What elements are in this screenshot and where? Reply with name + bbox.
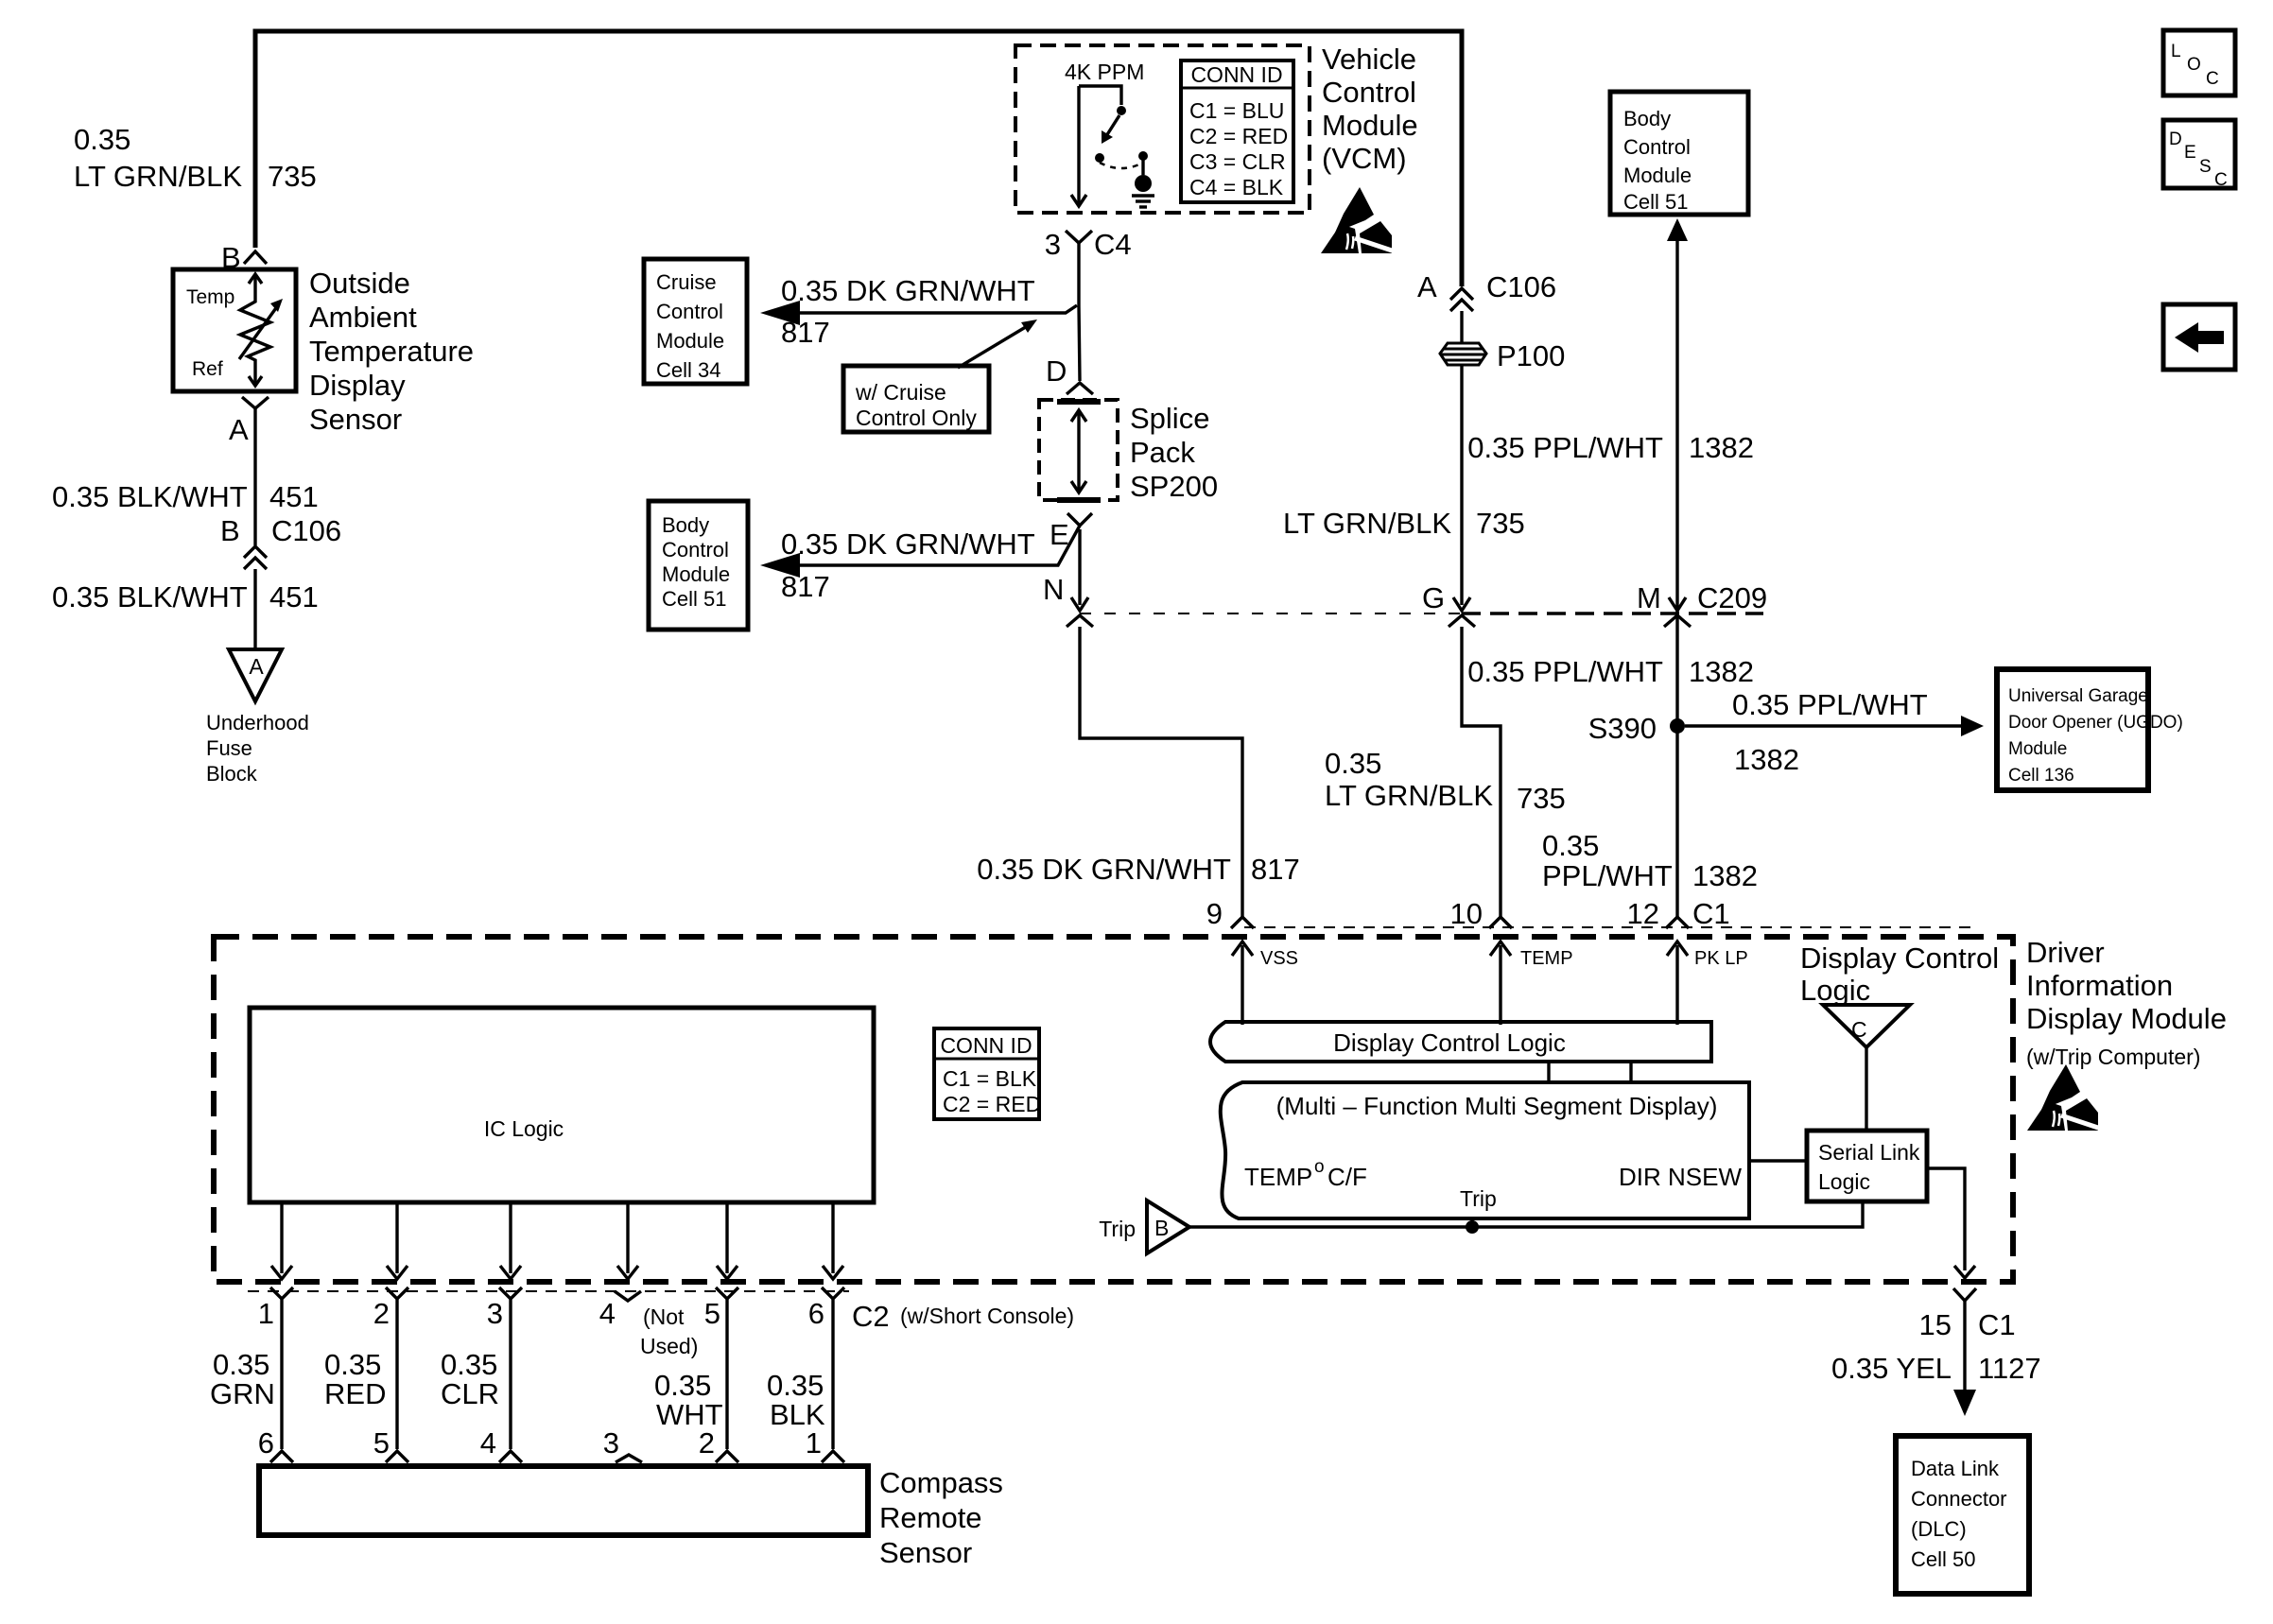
- svg-text:Fuse: Fuse: [206, 736, 252, 760]
- pin G at connector C209: [1422, 581, 1475, 627]
- svg-text:Logic: Logic: [1818, 1169, 1870, 1194]
- svg-text:15: 15: [1919, 1308, 1952, 1341]
- label: 0.35 RED: [324, 1348, 386, 1410]
- label: 0.35 DK GRN/WHT 817 (to cruise): [781, 274, 1035, 349]
- svg-text:LT GRN/BLK: LT GRN/BLK: [1325, 779, 1493, 812]
- svg-text:Trip: Trip: [1099, 1217, 1136, 1241]
- callout arrow to branch point: [958, 320, 1037, 368]
- connector chevron at sensor pin A: [242, 397, 269, 408]
- table: CONN ID for VCM connectors: [1181, 60, 1293, 202]
- svg-text:Temperature: Temperature: [309, 335, 474, 368]
- svg-text:1382: 1382: [1734, 743, 1799, 776]
- svg-text:Module: Module: [662, 562, 730, 586]
- node C: display control logic output triangle: [1823, 1005, 1910, 1047]
- svg-text:817: 817: [1251, 853, 1300, 886]
- label: Vehicle Control Module (VCM): [1322, 43, 1418, 175]
- pin M / C209: [1637, 581, 1767, 627]
- wire: compass sensor wire 6-1 BLK: [831, 1299, 834, 1449]
- svg-text:Used): Used): [640, 1334, 698, 1358]
- wire: compass sensor wire 3-4 CLR: [509, 1299, 512, 1449]
- svg-text:GRN: GRN: [210, 1377, 275, 1410]
- component: Body Control Module Cell 51 box (top right): [1610, 92, 1748, 215]
- svg-text:C4 = BLK: C4 = BLK: [1189, 175, 1284, 199]
- svg-text:IC Logic: IC Logic: [484, 1116, 564, 1141]
- label: 0.35 DK GRN/WHT 817 (at pin 9): [977, 853, 1299, 886]
- svg-text:E: E: [1050, 518, 1069, 551]
- svg-text:0.35: 0.35: [74, 123, 130, 156]
- svg-text:(VCM): (VCM): [1322, 142, 1407, 175]
- svg-text:1382: 1382: [1689, 431, 1754, 464]
- wire: PPL/WHT 1382 branch to UGDO module: [1685, 716, 1984, 736]
- svg-text:O: O: [2187, 55, 2201, 75]
- label: 0.35 PPL/WHT 1382 (below C209): [1467, 655, 1754, 688]
- svg-text:SP200: SP200: [1130, 470, 1218, 503]
- component: Serial Link Logic box: [1807, 1131, 1927, 1201]
- signal arrow TEMP into display logic: [1490, 942, 1573, 1025]
- component: Data Link Connector (DLC) Cell 50 box: [1896, 1436, 2029, 1594]
- svg-text:5: 5: [704, 1297, 720, 1330]
- label: Underhood Fuse Block: [206, 711, 309, 786]
- label: Compass Remote Sensor: [879, 1466, 1003, 1569]
- svg-text:Temp: Temp: [186, 286, 234, 308]
- svg-text:0.35 BLK/WHT: 0.35 BLK/WHT: [52, 580, 248, 613]
- svg-text:Display: Display: [309, 369, 406, 402]
- svg-text:735: 735: [268, 160, 317, 193]
- svg-text:Display Module: Display Module: [2026, 1002, 2227, 1035]
- svg-text:Control: Control: [656, 300, 723, 323]
- svg-text:(w/Trip Computer): (w/Trip Computer): [2026, 1045, 2200, 1069]
- svg-text:A: A: [229, 413, 249, 446]
- svg-text:Control Only: Control Only: [856, 406, 977, 430]
- svg-text:Cell 136: Cell 136: [2008, 766, 2074, 786]
- svg-text:Cruise: Cruise: [656, 270, 717, 294]
- component: Driver Information Display Module dashed outline: [214, 937, 2013, 1282]
- wire: Trip line from B triangle to Serial Link Logic: [1189, 1201, 1863, 1227]
- svg-text:6: 6: [258, 1426, 274, 1460]
- svg-text:10: 10: [1450, 897, 1483, 930]
- svg-text:(Not: (Not: [643, 1304, 685, 1329]
- svg-text:Logic: Logic: [1800, 974, 1870, 1007]
- svg-text:Body: Body: [1623, 107, 1671, 130]
- wire: compass sensor wire 1-6 GRN: [280, 1299, 283, 1449]
- pin 1 of C2: [258, 1287, 293, 1330]
- svg-text:Module: Module: [1623, 164, 1692, 187]
- label: Display Control Logic (triangle C): [1800, 942, 1999, 1007]
- label: 0.35 PPL/WHT 1382 (UGDO branch): [1732, 688, 1928, 776]
- label Ref (sensor internal): [192, 358, 223, 380]
- svg-text:Cell 51: Cell 51: [662, 587, 726, 611]
- wire: compass sensor wire 2-5 RED: [395, 1299, 398, 1449]
- svg-text:Module: Module: [2008, 739, 2067, 759]
- svg-text:0.35: 0.35: [767, 1369, 824, 1402]
- svg-text:Information: Information: [2026, 969, 2173, 1002]
- wire: IC logic output 4: [617, 1202, 638, 1279]
- svg-text:Cell 34: Cell 34: [656, 358, 720, 382]
- pin A / C106 (VCM harness inline connector): [1417, 270, 1556, 311]
- svg-text:Trip: Trip: [1460, 1186, 1497, 1211]
- svg-text:A: A: [249, 654, 264, 679]
- svg-text:C1 = BLU: C1 = BLU: [1189, 98, 1284, 123]
- wire: DK GRN/WHT 817 from N down to DIDM pin 9: [1080, 627, 1242, 917]
- svg-text:Sensor: Sensor: [879, 1536, 972, 1569]
- svg-text:0.35: 0.35: [1542, 829, 1599, 862]
- svg-text:1382: 1382: [1689, 655, 1754, 688]
- component: Cruise Control Module Cell 34 box: [644, 259, 747, 384]
- grommet P100: [1440, 339, 1565, 372]
- ground: PPM sensor ground inside VCM: [1132, 175, 1154, 207]
- wire: IC logic output 5: [717, 1202, 737, 1279]
- component: Outside Ambient Temperature Display Sensor box: [173, 269, 296, 391]
- callout box: w/ Cruise Control Only: [843, 366, 989, 432]
- svg-text:3: 3: [603, 1426, 619, 1460]
- wire: top bus 735 from sensor B to VCM C106: [255, 31, 1462, 286]
- svg-text:C209: C209: [1697, 581, 1767, 614]
- svg-text:Block: Block: [206, 762, 258, 786]
- component: Compass Remote Sensor box: [259, 1466, 868, 1535]
- svg-text:0.35 BLK/WHT: 0.35 BLK/WHT: [52, 480, 248, 513]
- pin 6 of compass sensor: [258, 1426, 293, 1462]
- node B: Trip input triangle: [1099, 1201, 1189, 1253]
- svg-text:3: 3: [1045, 228, 1061, 261]
- svg-text:Pack: Pack: [1130, 436, 1195, 469]
- connector chevron at sensor pin B: [244, 251, 267, 264]
- svg-text:C106: C106: [271, 514, 341, 547]
- label: 0.35 BLK: [767, 1369, 825, 1431]
- table: CONN ID for DIDM connectors: [934, 1028, 1041, 1119]
- svg-text:C4: C4: [1094, 228, 1132, 261]
- svg-text:C/F: C/F: [1327, 1163, 1367, 1191]
- svg-text:1: 1: [806, 1426, 822, 1460]
- svg-text:Control: Control: [1322, 76, 1416, 109]
- label: 4K PPM: [1065, 60, 1144, 84]
- svg-text:D: D: [2169, 130, 2182, 149]
- svg-text:L: L: [2171, 42, 2181, 61]
- svg-text:0.35 DK GRN/WHT: 0.35 DK GRN/WHT: [977, 853, 1231, 886]
- svg-text:Module: Module: [656, 329, 724, 353]
- svg-text:o: o: [1314, 1157, 1325, 1177]
- svg-text:B: B: [220, 514, 240, 547]
- wire: LT GRN/BLK 735 from G jog down to DIDM pin 10: [1462, 627, 1501, 917]
- svg-text:6: 6: [808, 1297, 824, 1330]
- svg-text:C: C: [2214, 170, 2228, 190]
- svg-text:12: 12: [1627, 897, 1659, 930]
- svg-text:G: G: [1422, 581, 1445, 614]
- wire: IC logic output 3: [500, 1202, 521, 1279]
- label: Outside Ambient Temperature Display Sensor: [309, 267, 474, 436]
- svg-text:C2: C2: [852, 1300, 890, 1333]
- pin 2 of C2: [373, 1287, 408, 1330]
- wire: splice pack internal bus with arrows: [1071, 410, 1086, 492]
- svg-text:S: S: [2199, 157, 2212, 177]
- wire: PPL/WHT 1382 from BCM down to DIDM pin 12: [1667, 218, 1688, 917]
- svg-text:451: 451: [269, 480, 319, 513]
- wire: C triangle to Serial Link Logic: [1865, 1047, 1867, 1131]
- signal arrow PK LP into display logic: [1667, 942, 1748, 1025]
- svg-text:C1: C1: [1978, 1308, 2016, 1341]
- svg-text:1382: 1382: [1692, 859, 1758, 892]
- svg-text:Ref: Ref: [192, 358, 223, 380]
- pin 4 of C2 (not used): [599, 1291, 641, 1330]
- svg-text:(Multi – Function Multi Segmen: (Multi – Function Multi Segment Display): [1276, 1092, 1718, 1120]
- pin 5 of C2: [704, 1287, 738, 1330]
- svg-text:w/ Cruise: w/ Cruise: [855, 380, 946, 405]
- label: 0.35 BLK/WHT 451 (lower): [52, 580, 319, 613]
- svg-text:1: 1: [258, 1297, 274, 1330]
- svg-text:0.35: 0.35: [1325, 747, 1381, 780]
- resistor: variable thermistor element inside sensor: [239, 274, 283, 386]
- pin 2 of compass sensor: [699, 1426, 738, 1462]
- svg-text:Underhood: Underhood: [206, 711, 309, 734]
- power: Underhood Fuse Block triangle A: [229, 649, 282, 701]
- svg-text:2: 2: [373, 1297, 390, 1330]
- label: Driver Information Display Module (w/Trip Computer): [2026, 936, 2227, 1069]
- svg-text:0.35 PPL/WHT: 0.35 PPL/WHT: [1732, 688, 1928, 721]
- svg-text:Ambient: Ambient: [309, 301, 417, 334]
- svg-text:Splice: Splice: [1130, 402, 1209, 435]
- svg-text:Vehicle: Vehicle: [1322, 43, 1416, 76]
- pin D (splice pack side): [1046, 354, 1093, 394]
- svg-text:PPL/WHT: PPL/WHT: [1542, 859, 1673, 892]
- svg-text:Display Control: Display Control: [1800, 942, 1999, 975]
- svg-text:Connector: Connector: [1911, 1487, 2007, 1511]
- svg-text:N: N: [1043, 573, 1064, 606]
- svg-text:817: 817: [781, 570, 830, 603]
- wire: display to Serial Link Logic: [1749, 1159, 1807, 1162]
- svg-text:LT GRN/BLK: LT GRN/BLK: [1283, 507, 1451, 540]
- svg-text:Cell 51: Cell 51: [1623, 190, 1688, 214]
- svg-text:0.35: 0.35: [654, 1369, 711, 1402]
- svg-text:0.35 PPL/WHT: 0.35 PPL/WHT: [1467, 431, 1663, 464]
- wire: from VCM pin 3 down to branch and splice pack: [1079, 243, 1080, 381]
- wire: compass sensor wire 5-2 WHT: [725, 1299, 728, 1449]
- svg-text:735: 735: [1517, 782, 1566, 815]
- svg-text:VSS: VSS: [1260, 948, 1298, 969]
- label: 0.35 WHT: [654, 1369, 723, 1431]
- pin 1 of compass sensor: [806, 1426, 844, 1462]
- svg-text:Universal Garage: Universal Garage: [2008, 686, 2148, 706]
- wire: DK GRN/WHT 817 branch to Cruise Control Module: [760, 301, 1077, 325]
- svg-text:C2 = RED: C2 = RED: [1189, 124, 1288, 148]
- splice S390: [1588, 712, 1685, 745]
- svg-text:Driver: Driver: [2026, 936, 2105, 969]
- connector C209 inline dashed line: [1080, 613, 1763, 614]
- svg-text:3: 3: [487, 1297, 503, 1330]
- junction: Trip tap from display: [1466, 1218, 1479, 1234]
- svg-text:9: 9: [1206, 897, 1223, 930]
- svg-text:C3 = CLR: C3 = CLR: [1189, 149, 1286, 174]
- label: 0.35 CLR: [441, 1348, 499, 1410]
- svg-text:D: D: [1046, 354, 1067, 388]
- svg-text:P100: P100: [1497, 339, 1565, 372]
- wire: BLK/WHT 451 from C106 to fuse block: [253, 569, 256, 649]
- svg-text:Door Opener (UGDO): Door Opener (UGDO): [2008, 713, 2183, 733]
- svg-text:0.35 DK GRN/WHT: 0.35 DK GRN/WHT: [781, 527, 1035, 561]
- svg-text:5: 5: [373, 1426, 390, 1460]
- label: 0.35 LT GRN/BLK 735 (top left): [74, 123, 317, 193]
- wire: LT GRN/BLK 735 through P100 down to G: [1460, 311, 1463, 605]
- svg-text:C1: C1: [1692, 897, 1730, 930]
- svg-text:TEMP: TEMP: [1520, 948, 1573, 969]
- svg-text:Display Control Logic: Display Control Logic: [1333, 1028, 1566, 1057]
- wire: DK GRN/WHT 817 branch to Body Control Module: [760, 526, 1080, 578]
- label: 0.35 YEL 1127: [1831, 1352, 2041, 1385]
- svg-text:2: 2: [699, 1426, 715, 1460]
- svg-text:Module: Module: [1322, 109, 1418, 142]
- svg-text:Body: Body: [662, 513, 709, 537]
- sensor: 4K PPM speed signal generator symbol: [1071, 86, 1148, 206]
- svg-text:C1 = BLK: C1 = BLK: [943, 1066, 1037, 1091]
- svg-text:Sensor: Sensor: [309, 403, 402, 436]
- label: 0.35 DK GRN/WHT 817 (to BCM): [781, 527, 1035, 603]
- svg-text:LT GRN/BLK: LT GRN/BLK: [74, 160, 242, 193]
- svg-text:Compass: Compass: [879, 1466, 1003, 1499]
- svg-text:C: C: [2206, 69, 2219, 89]
- label: LT GRN/BLK 735 (right): [1283, 507, 1525, 540]
- pin 12 / C1 of DIDM: [1627, 897, 1730, 930]
- label: (Not Used): [640, 1304, 698, 1358]
- svg-text:Control: Control: [1623, 135, 1691, 159]
- connector C1 inline thin dashed line: [1244, 926, 1971, 928]
- pin 6 / C2 of DIDM: [808, 1287, 1074, 1333]
- svg-text:0.35: 0.35: [324, 1348, 381, 1381]
- component: Universal Garage Door Opener (UGDO) Module Cell 136 box: [1997, 669, 2183, 790]
- icon: ESD sensitivity symbol (DIDM): [2027, 1064, 2101, 1131]
- component: Multi-Function Multi Segment Display box: [1221, 1082, 1749, 1218]
- pin A of temperature sensor: [229, 413, 249, 446]
- pin 3 of C2: [487, 1287, 522, 1330]
- nav box: LOC: [2163, 30, 2235, 95]
- svg-text:4: 4: [599, 1297, 616, 1330]
- label: 0.35 BLK/WHT 451 (upper): [52, 480, 319, 513]
- connector C106 pin B (inline, double chevron): [220, 514, 341, 569]
- svg-text:C2 = RED: C2 = RED: [943, 1092, 1041, 1116]
- svg-text:Remote: Remote: [879, 1501, 982, 1534]
- component: Display Control Logic bar: [1210, 1022, 1711, 1062]
- svg-text:(DLC): (DLC): [1911, 1517, 1967, 1541]
- pin N at connector C209: [1043, 529, 1093, 627]
- svg-text:CLR: CLR: [441, 1377, 499, 1410]
- svg-text:Outside: Outside: [309, 267, 410, 300]
- svg-text:TEMP: TEMP: [1244, 1163, 1312, 1191]
- pin 10 of DIDM connector C1: [1450, 897, 1512, 930]
- svg-text:4: 4: [480, 1426, 496, 1460]
- label: 0.35 PPL/WHT 1382 (upper right): [1467, 431, 1754, 464]
- svg-text:C: C: [1851, 1017, 1867, 1042]
- wire: BLK/WHT 451 from sensor A to C106: [253, 408, 256, 545]
- svg-text:0.35: 0.35: [213, 1348, 269, 1381]
- svg-text:0.35 DK GRN/WHT: 0.35 DK GRN/WHT: [781, 274, 1035, 307]
- pin 3 of compass sensor (not used): [603, 1426, 642, 1462]
- label: Splice Pack SP200: [1130, 402, 1218, 503]
- svg-text:CONN ID: CONN ID: [940, 1033, 1032, 1058]
- label: 0.35 GRN: [210, 1348, 275, 1410]
- svg-text:735: 735: [1476, 507, 1525, 540]
- wire: IC logic output 2: [387, 1202, 408, 1279]
- svg-text:817: 817: [781, 316, 830, 349]
- svg-text:Serial Link: Serial Link: [1818, 1140, 1920, 1165]
- svg-text:DIR NSEW: DIR NSEW: [1619, 1163, 1742, 1191]
- label Temp (sensor internal): [186, 286, 234, 308]
- svg-text:A: A: [1417, 270, 1437, 303]
- svg-text:CONN ID: CONN ID: [1190, 62, 1282, 87]
- svg-text:0.35 PPL/WHT: 0.35 PPL/WHT: [1467, 655, 1663, 688]
- label: 0.35 LT GRN/BLK (column to pin 10): [1542, 829, 1758, 892]
- svg-text:1127: 1127: [1978, 1352, 2041, 1385]
- svg-text:RED: RED: [324, 1377, 386, 1410]
- signal arrow VSS into display logic: [1232, 942, 1298, 1025]
- nav box: back arrow: [2163, 304, 2235, 370]
- wire: Serial Link Logic output to DIDM pin 15: [1927, 1168, 1975, 1278]
- component: Body Control Module Cell 51 box (left): [649, 501, 748, 630]
- pin 9 of DIDM connector C1: [1206, 897, 1254, 930]
- svg-text:PK LP: PK LP: [1694, 948, 1748, 969]
- svg-text:B: B: [1154, 1216, 1169, 1240]
- icon: ESD sensitivity symbol (VCM): [1321, 187, 1395, 253]
- label: 0.35 LT GRN/BLK 735 (mid): [1325, 747, 1566, 815]
- svg-text:0.35: 0.35: [441, 1348, 497, 1381]
- svg-text:4K PPM: 4K PPM: [1065, 60, 1144, 84]
- svg-text:0.35 YEL: 0.35 YEL: [1831, 1352, 1952, 1385]
- svg-text:Control: Control: [662, 538, 729, 561]
- pin E (splice pack output): [1050, 513, 1092, 551]
- pin B of temperature sensor: [221, 241, 241, 274]
- svg-text:Cell 50: Cell 50: [1911, 1547, 1975, 1571]
- nav box: DESC: [2163, 120, 2235, 190]
- pin 15 / C1 of DIDM: [1919, 1288, 2016, 1341]
- wire: IC logic output 1: [271, 1202, 292, 1279]
- wires: display control logic bar to display: [1549, 1062, 1631, 1082]
- svg-text:Data Link: Data Link: [1911, 1457, 2000, 1480]
- svg-text:E: E: [2184, 143, 2196, 163]
- pin 5 of compass sensor: [373, 1426, 408, 1462]
- pin 4 of compass sensor: [480, 1426, 522, 1462]
- svg-text:(w/Short Console): (w/Short Console): [900, 1304, 1074, 1328]
- svg-text:S390: S390: [1588, 712, 1657, 745]
- component: Splice Pack SP200 dashed box: [1039, 400, 1118, 500]
- svg-text:451: 451: [269, 580, 319, 613]
- component: Vehicle Control Module dashed outline: [1015, 45, 1310, 213]
- svg-text:M: M: [1637, 581, 1661, 614]
- connector C2 inline thin dashed line: [248, 1290, 849, 1292]
- wire: IC logic output 6: [823, 1202, 843, 1279]
- component: IC Logic box: [250, 1008, 874, 1202]
- pin 3 / C4 of VCM: [1045, 228, 1132, 261]
- svg-text:C106: C106: [1486, 270, 1556, 303]
- wire: YEL 1127 to Data Link Connector: [1953, 1301, 1976, 1416]
